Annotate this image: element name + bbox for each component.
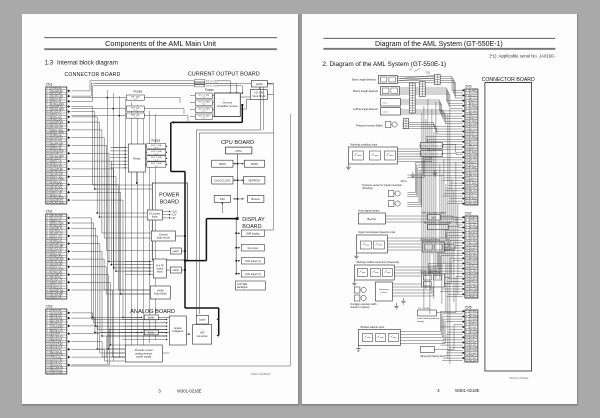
svg-text:EEPROM: EEPROM xyxy=(248,178,259,182)
svg-text:A1-SOL-E5: A1-SOL-E5 xyxy=(50,247,62,250)
block slow stop swing drive xyxy=(420,346,445,358)
switch group window washer input xyxy=(356,326,400,351)
svg-text:Buzzer: Buzzer xyxy=(367,217,376,221)
output telescoping control xyxy=(423,221,451,229)
doc number board corner xyxy=(509,376,529,380)
sensor pressure sensor (Main) xyxy=(356,121,397,127)
svg-text:CURRENT OUTPUT BOARD: CURRENT OUTPUT BOARD xyxy=(187,71,259,77)
connector J3 mini stack (*1) xyxy=(425,70,439,84)
svg-text:CN5: CN5 xyxy=(464,305,471,309)
svg-text:Slow stop/Overlap: Slow stop/Overlap xyxy=(420,270,440,273)
buffer amplifier A2 xyxy=(141,330,169,335)
wire feeder bundles into pins xyxy=(385,76,462,360)
wire bus to block connections xyxy=(110,147,166,339)
svg-text:Auto stop extends signal input: Auto stop extends signal input xyxy=(419,152,443,155)
connector CN3 xyxy=(462,84,477,205)
svg-text:A1-SOL: A1-SOL xyxy=(469,174,477,177)
svg-text:Cut 2: Cut 2 xyxy=(382,110,388,113)
svg-text:Fuses: Fuses xyxy=(133,89,142,93)
svg-text:CONNECTOR BOARD: CONNECTOR BOARD xyxy=(64,72,120,78)
left page header title xyxy=(105,39,216,48)
svg-text:ROM: ROM xyxy=(251,162,258,166)
svg-text:A1-SOL: A1-SOL xyxy=(469,159,477,162)
wire CPU data bus xyxy=(221,154,244,220)
caption CONNECTOR BOARD xyxy=(481,77,534,83)
svg-text:BOARD: BOARD xyxy=(159,199,178,205)
sensor boom angle detector xyxy=(352,75,397,83)
connector J1 mini stack xyxy=(409,83,415,113)
svg-text:Buzzer: Buzzer xyxy=(251,197,259,201)
svg-text:45: 45 xyxy=(465,203,467,205)
svg-text:D4-LMP-B2: D4-LMP-B2 xyxy=(50,184,63,186)
amplifier block U10 Current Amplifier Circuit xyxy=(214,93,240,117)
pressure sensor power supply PS2 xyxy=(125,345,162,362)
svg-text:AG-SEN: AG-SEN xyxy=(469,257,477,260)
svg-text:F6-ACC: F6-ACC xyxy=(469,293,477,296)
svg-text:RXD-1-C3-: RXD-1-C3- xyxy=(50,163,62,165)
svg-text:Diagram of the AML System (GT-: Diagram of the AML System (GT-550E-1) xyxy=(375,41,503,48)
wire right and bottom boundary xyxy=(67,114,290,366)
wire latch to I/O block xyxy=(240,84,273,130)
caption CONNECTOR BOARD xyxy=(64,72,120,78)
svg-text:Auto stop override signal inpu: Auto stop override signal input xyxy=(419,144,444,147)
svg-text:CN1: CN1 xyxy=(45,82,52,86)
svg-text:(*1): (*1) xyxy=(425,70,429,74)
caption DISPLAY BOARD xyxy=(242,217,265,230)
svg-text:Window washer input: Window washer input xyxy=(360,326,384,329)
svg-text:GND-L-SIG: GND-L-SIG xyxy=(50,176,62,178)
right page (page 4) xyxy=(302,14,578,406)
right page header bottom rule xyxy=(323,48,555,50)
svg-text:backlights: backlights xyxy=(237,286,248,289)
svg-text:input block: input block xyxy=(154,291,167,295)
svg-text:B2-CAN-LS: B2-CAN-LS xyxy=(50,335,62,338)
svg-text:Boom angle detector: Boom angle detector xyxy=(352,78,376,82)
svg-text:Pressure sensor (Main): Pressure sensor (Main) xyxy=(356,124,383,128)
svg-text:PWR-C-: PWR-C- xyxy=(469,296,477,298)
DC power block PS1 xyxy=(147,210,162,220)
svg-text:33: 33 xyxy=(46,297,48,299)
svg-text:+5V: +5V xyxy=(171,217,176,220)
block slow stop overlap B xyxy=(420,270,444,286)
left page header bottom rule xyxy=(44,48,277,50)
connector J2 mini stack xyxy=(419,81,425,96)
fuse group F1 (WF fuses) xyxy=(71,89,188,121)
sensor outrigger extension width detector xyxy=(350,282,392,309)
display module DS1 xyxy=(236,230,264,237)
caption CURRENT OUTPUT BOARD xyxy=(187,71,259,77)
svg-text:NC-AG-SEN: NC-AG-SEN xyxy=(50,108,63,111)
svg-text:NC-AG-SEN: NC-AG-SEN xyxy=(50,201,63,204)
svg-text:block: block xyxy=(157,270,163,273)
doc number W301-0218E xyxy=(177,388,202,393)
doc number diagram corner xyxy=(250,372,270,376)
svg-text:(Cont.): (Cont.) xyxy=(380,291,387,294)
spine shadow between pages xyxy=(299,14,302,405)
LCD panel DS3 xyxy=(236,257,264,264)
svg-text:24(V): 24(V) xyxy=(400,179,406,183)
switch group upper transmission detection input xyxy=(354,231,395,259)
svg-text:D4-LMP-B2: D4-LMP-B2 xyxy=(50,137,63,139)
section heading 2 xyxy=(322,61,446,68)
CALC/CLOCK block U4 xyxy=(211,176,232,184)
caption CPU BOARD xyxy=(221,140,254,146)
svg-text:Buffer: Buffer xyxy=(148,331,155,334)
svg-text:B2-CAN-VB: B2-CAN-VB xyxy=(50,366,63,369)
block slow stop overlay A xyxy=(420,238,444,251)
svg-text:Working condition inputs from: Working condition inputs from (Telescope… xyxy=(356,261,399,264)
svg-text:4: 4 xyxy=(437,388,440,393)
svg-text:Upper transmission detection i: Upper transmission detection input xyxy=(358,231,395,234)
svg-text:Fuses: Fuses xyxy=(205,88,214,92)
svg-text:F6-ACC: F6-ACC xyxy=(469,216,477,219)
svg-text:A1-SOL-B2: A1-SOL-B2 xyxy=(50,217,62,220)
svg-text:A1-SOL-P-: A1-SOL-P- xyxy=(50,110,61,113)
svg-text:Input block: Input block xyxy=(252,94,266,98)
connector J4 mini stack xyxy=(403,118,408,128)
switch group working condition input xyxy=(346,142,397,169)
svg-text:DISPLAY: DISPLAY xyxy=(242,217,265,223)
sensor boom length detector xyxy=(353,86,399,95)
connector board outline xyxy=(484,82,531,370)
svg-text:Cut 1: Cut 1 xyxy=(382,101,388,104)
svg-text:Latch: Latch xyxy=(172,268,179,272)
LCD panel DS4 xyxy=(236,270,264,277)
svg-text:~o_o~: ~o_o~ xyxy=(201,104,206,106)
section heading 1.3 Internal block diagram xyxy=(44,59,117,66)
svg-text:~o_o~: ~o_o~ xyxy=(201,118,206,120)
svg-text:NC-A1-SOL: NC-A1-SOL xyxy=(50,260,63,263)
svg-text:(Floating): (Floating) xyxy=(362,187,372,190)
svg-text:W301-0218E: W301-0218E xyxy=(455,388,480,393)
svg-text:1.3: 1.3 xyxy=(44,59,53,66)
svg-text:AG-SEN: AG-SEN xyxy=(469,331,477,334)
CPU block U1 xyxy=(225,147,251,154)
wire routed connector lines xyxy=(71,106,170,364)
svg-text:W301-1024E2: W301-1024E2 xyxy=(509,376,529,380)
svg-text:AG-SEN: AG-SEN xyxy=(469,272,477,275)
svg-text:Key input: Key input xyxy=(247,247,258,250)
svg-text:F6-ACC: F6-ACC xyxy=(469,231,477,234)
svg-text:A1-SOL: A1-SOL xyxy=(469,128,477,131)
svg-text:A1-SOL-GN: A1-SOL-GN xyxy=(50,95,63,98)
svg-text:Telescoping control output: Telescoping control output xyxy=(423,221,451,224)
svg-text:GND-L-AG-: GND-L-AG- xyxy=(50,281,62,284)
svg-text:A1-SOL-E5: A1-SOL-E5 xyxy=(50,294,62,297)
LCD backlight block DS5 xyxy=(235,281,265,290)
connector CN5 xyxy=(462,305,478,362)
analog multiplexer U15 xyxy=(166,316,186,345)
connector CN2 xyxy=(462,211,478,298)
connector CN2 xyxy=(45,209,70,299)
RAM block U2 xyxy=(211,160,232,167)
latch U8 xyxy=(170,248,186,254)
svg-text:TXD-2-A1-: TXD-2-A1- xyxy=(50,356,61,359)
svg-text:Latch: Latch xyxy=(255,82,262,86)
svg-text:P-SW1-RXD: P-SW1-RXD xyxy=(50,197,63,199)
svg-text:POWER: POWER xyxy=(159,192,179,198)
A/D converter U17 xyxy=(186,324,211,344)
power rail outputs +12V -12V +5V xyxy=(162,210,177,219)
note applicable serial xyxy=(489,53,555,58)
block DC-DC with external indicator lamps xyxy=(417,307,439,323)
svg-text:F6-ACC: F6-ACC xyxy=(469,336,477,339)
svg-text:Latch: Latch xyxy=(199,317,206,321)
key input DS2 xyxy=(236,244,264,251)
EEPROM block U5 xyxy=(243,176,264,184)
switch group working condition inputs (Telescope) xyxy=(352,261,399,286)
svg-text:Fuses: Fuses xyxy=(151,138,160,142)
svg-text:(*1): Applicable serial No. JA: (*1): Applicable serial No. JA0160- xyxy=(489,53,555,58)
svg-text:P-SW1-RXD: P-SW1-RXD xyxy=(50,150,63,152)
svg-text:Horn signal output: Horn signal output xyxy=(358,208,379,212)
svg-text:F6-ACC: F6-ACC xyxy=(469,320,477,323)
svg-text:multiplexer: multiplexer xyxy=(172,330,184,333)
right page header title xyxy=(375,41,503,48)
svg-text:Luffing angle detector: Luffing angle detector xyxy=(353,107,378,111)
connector CN1 xyxy=(45,82,70,204)
svg-text:Boom length detector: Boom length detector xyxy=(353,89,378,93)
svg-text:block: block xyxy=(151,215,158,218)
svg-text:TXD-2-RXD: TXD-2-RXD xyxy=(50,372,63,374)
svg-text:NC-F6-ACC: NC-F6-ACC xyxy=(50,123,63,126)
svg-text:~o_o~: ~o_o~ xyxy=(153,165,158,167)
svg-text:Slow stop/Overlay: Slow stop/Overlay xyxy=(420,238,440,241)
fuse group F3 (SOL fuses) xyxy=(190,88,214,120)
svg-text:B2-CAN-SI: B2-CAN-SI xyxy=(50,351,62,354)
svg-text:Connector: Connector xyxy=(378,288,388,291)
svg-text:~o_o~: ~o_o~ xyxy=(201,97,206,99)
wire SOL output rows with labels xyxy=(71,80,243,102)
wire analog board connections xyxy=(107,317,169,357)
svg-text:NC-AG-: NC-AG- xyxy=(469,202,477,205)
buffer amplifier A1 xyxy=(141,315,169,320)
svg-text:CN3: CN3 xyxy=(45,304,52,308)
24-bit input block U14 xyxy=(150,286,170,299)
svg-text:AG-SEN: AG-SEN xyxy=(469,315,477,318)
label 24V xyxy=(400,179,406,183)
svg-text:Working condition input: Working condition input xyxy=(350,142,377,146)
svg-text:Buffer: Buffer xyxy=(148,316,155,319)
wire relay to power rail xyxy=(136,172,138,184)
svg-text:LMR display: LMR display xyxy=(246,232,261,235)
wire vertical bus columns xyxy=(107,90,155,364)
svg-text:~o_o~: ~o_o~ xyxy=(132,116,137,118)
svg-text:loop circuit: loop circuit xyxy=(156,235,169,239)
svg-text:F6-ACC: F6-ACC xyxy=(469,277,477,280)
svg-text:power supply: power supply xyxy=(136,355,151,358)
svg-text:CN2: CN2 xyxy=(45,209,52,213)
svg-text:45: 45 xyxy=(46,202,48,204)
svg-text:F6-ACC: F6-ACC xyxy=(469,352,477,355)
svg-text:3: 3 xyxy=(158,388,161,393)
svg-text:B2-CAN-VB: B2-CAN-VB xyxy=(50,319,63,322)
svg-text:NC-A1-SOL: NC-A1-SOL xyxy=(50,214,63,217)
svg-text:P-SW1-A1-: P-SW1-A1- xyxy=(50,134,62,137)
buzzer horn signal output xyxy=(358,208,385,223)
svg-text:CALC/CLOCK: CALC/CLOCK xyxy=(214,179,230,182)
svg-text:NC-F6-ACC: NC-F6-ACC xyxy=(50,170,63,173)
svg-text:Outrigger extension width: Outrigger extension width xyxy=(350,303,377,306)
svg-text:LCD panel (1): LCD panel (1) xyxy=(245,260,261,263)
POWER BOARD outline xyxy=(152,183,187,260)
svg-text:RXD-1-S1-: RXD-1-S1- xyxy=(50,101,61,103)
wire long vertical rails xyxy=(421,99,457,364)
caption ANALOG BOARD xyxy=(130,309,175,315)
svg-text:CPU: CPU xyxy=(235,149,241,153)
svg-text:CN3: CN3 xyxy=(464,84,471,88)
svg-text:E5-KEY-AG: E5-KEY-AG xyxy=(50,330,62,333)
svg-text:S1-INP: S1-INP xyxy=(469,360,476,362)
fuse group F2 (RC fuses) xyxy=(145,138,167,167)
page number 3 xyxy=(158,388,161,393)
input auto stop extend signal xyxy=(419,150,443,156)
svg-text:ANALOG BOARD: ANALOG BOARD xyxy=(130,309,175,315)
D-A output block U13 xyxy=(149,259,166,278)
wire diagonal links to J3 xyxy=(399,68,434,80)
svg-text:BOARD: BOARD xyxy=(242,224,261,230)
page number 4 xyxy=(437,388,440,393)
svg-text:W301-0105E20: W301-0105E20 xyxy=(250,372,270,376)
svg-text:Components of the AML Main Uni: Components of the AML Main Unit xyxy=(105,39,216,48)
I/O input block U12 xyxy=(250,89,267,99)
svg-text:converter: converter xyxy=(196,334,207,338)
SIO block U6 xyxy=(214,195,230,202)
svg-text:~o_o~: ~o_o~ xyxy=(153,153,158,155)
wire CPU board feed lines xyxy=(196,87,273,319)
wire thick branch to display board xyxy=(183,217,237,261)
ground G1 xyxy=(410,172,414,178)
relay K1 xyxy=(124,144,145,172)
connector CN3 xyxy=(45,304,70,374)
svg-text:lamps): lamps) xyxy=(417,321,424,323)
svg-text:Amplifier Circuit: Amplifier Circuit xyxy=(217,104,237,108)
svg-text:A1-SOL-B2: A1-SOL-B2 xyxy=(50,263,62,266)
svg-text:20: 20 xyxy=(465,360,467,362)
caption POWER BOARD xyxy=(159,192,179,205)
doc number W301-0218E right xyxy=(455,388,480,393)
svg-text:A1-SOL: A1-SOL xyxy=(469,112,477,115)
output auto stop signal xyxy=(421,211,446,219)
svg-text:AG-SEN: AG-SEN xyxy=(469,346,477,349)
ground G2 xyxy=(432,170,436,176)
wire thick main power run xyxy=(170,104,243,336)
Buzzer block BZ1 xyxy=(247,195,263,202)
sensor luffing angle detector xyxy=(353,98,400,115)
latch U11 xyxy=(251,80,267,87)
svg-text:Slow stop (Swing drive): Slow stop (Swing drive) xyxy=(420,355,445,358)
svg-text:~o_o~: ~o_o~ xyxy=(153,147,158,149)
svg-text:W301-0218E: W301-0218E xyxy=(177,388,202,393)
sensor pressure sensor for crawler detection xyxy=(362,184,402,206)
wire top boundary to right edge xyxy=(95,83,273,230)
svg-text:A1-SOL-GN: A1-SOL-GN xyxy=(50,188,63,191)
right page header top rule xyxy=(323,37,555,39)
svg-text:P-SW1-A1-: P-SW1-A1- xyxy=(50,87,62,90)
latch U9 xyxy=(166,267,186,273)
svg-text:2. Diagram of the AML System: 2. Diagram of the AML System (GT-550E-1) xyxy=(322,61,446,68)
svg-text:~o_o~: ~o_o~ xyxy=(153,159,158,161)
wire thick arrows into latch and A/D xyxy=(216,318,218,337)
svg-text:detector (4 places): detector (4 places) xyxy=(350,306,369,309)
svg-text:Relay: Relay xyxy=(133,156,141,160)
svg-text:CN2: CN2 xyxy=(464,211,471,215)
svg-text:~o_o~: ~o_o~ xyxy=(132,109,137,111)
left page (page 3) xyxy=(22,14,299,405)
ground G4 xyxy=(401,298,405,304)
latch U16 xyxy=(196,315,208,324)
svg-text:CPU BOARD: CPU BOARD xyxy=(221,140,254,146)
svg-text:GND-L-F6-: GND-L-F6- xyxy=(50,297,62,299)
svg-text:25: 25 xyxy=(46,372,48,374)
svg-text:RAM: RAM xyxy=(219,162,226,166)
ROM block U3 xyxy=(244,160,264,167)
svg-text:Internal block diagram: Internal block diagram xyxy=(57,59,118,66)
wire display board vertical feed xyxy=(235,218,273,274)
svg-text:SOL: SOL xyxy=(431,216,436,219)
svg-text:A1-SOL-TX: A1-SOL-TX xyxy=(50,278,62,281)
svg-text:TXD-2-A1-: TXD-2-A1- xyxy=(50,309,61,312)
svg-text:(with external indicator: (with external indicator xyxy=(417,317,439,320)
current loop circuit U7 xyxy=(151,231,186,241)
svg-text:GND-L-AG-: GND-L-AG- xyxy=(50,235,62,238)
svg-text:Latch: Latch xyxy=(172,249,179,253)
svg-text:GND-L-LS-: GND-L-LS- xyxy=(50,114,62,116)
svg-text:LCD panel (2): LCD panel (2) xyxy=(245,273,261,276)
svg-text:~o_o~: ~o_o~ xyxy=(132,98,137,100)
svg-text:(*): (*) xyxy=(409,68,412,71)
svg-text:~o_o~: ~o_o~ xyxy=(201,111,206,113)
svg-text:A1-SOL-P-: A1-SOL-P- xyxy=(50,157,61,160)
svg-text:32: 32 xyxy=(465,296,467,298)
svg-text:A1-SOL-NC: A1-SOL-NC xyxy=(50,126,63,129)
svg-text:SIO: SIO xyxy=(219,197,225,201)
input auto stop override signal xyxy=(419,142,444,148)
ground G3 xyxy=(394,303,398,309)
left page header top rule xyxy=(44,37,277,39)
